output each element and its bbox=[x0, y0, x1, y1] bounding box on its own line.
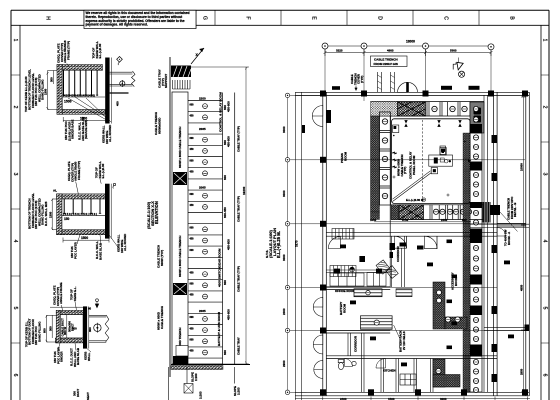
section2 bottom-right note cluster bbox=[117, 234, 128, 253]
elevation band cross box 1 bbox=[173, 172, 187, 185]
svg-text:E.L.(+)0.25 M.: E.L.(+)0.25 M. bbox=[276, 231, 281, 258]
svg-text:3170: 3170 bbox=[295, 240, 299, 247]
office desks row 1 bbox=[330, 273, 364, 286]
svg-text:BASE SLAB: BASE SLAB bbox=[76, 348, 80, 365]
svg-text:(TYP): (TYP) bbox=[403, 167, 407, 174]
battery rack note bbox=[399, 330, 406, 352]
svg-text:600Wx600D: 600Wx600D bbox=[157, 118, 161, 134]
svg-text:UNDER: UNDER bbox=[60, 351, 64, 362]
elevation right dim line 19200 bbox=[191, 67, 249, 364]
svg-text:5: 5 bbox=[542, 307, 548, 310]
svg-text:FRAME (TYP): FRAME (TYP) bbox=[77, 161, 81, 180]
svg-text:600W x 600D CABLE TRENCH: 600W x 600D CABLE TRENCH bbox=[178, 236, 182, 277]
section1 top note cluster left bbox=[57, 40, 71, 63]
elevation row circles bbox=[203, 104, 208, 355]
ring bottom dim row bbox=[370, 218, 471, 222]
svg-text:SUPPORT: SUPPORT bbox=[164, 74, 168, 88]
svg-text:3: 3 bbox=[12, 173, 18, 176]
bottom rooms top wall bbox=[326, 356, 497, 359]
control room trench note arrows bbox=[392, 152, 397, 168]
svg-text:1500: 1500 bbox=[81, 236, 88, 240]
section1 top note cluster right bbox=[92, 41, 103, 59]
svg-text:(GRADE M25): (GRADE M25) bbox=[84, 120, 88, 139]
office desks row 2 bbox=[367, 273, 386, 287]
svg-text:SECT: SECT bbox=[86, 392, 90, 400]
section3 top leader 1 bbox=[61, 305, 63, 310]
plan section flag Y bbox=[453, 58, 465, 78]
svg-text:ELEVATION: ELEVATION bbox=[154, 201, 159, 224]
plan veranda edge bbox=[295, 92, 301, 400]
svg-text:CABLE TRAY: CABLE TRAY bbox=[237, 337, 241, 355]
elevation title rotated bbox=[146, 201, 159, 229]
ring bottom band bbox=[371, 205, 485, 220]
svg-text:2V 110 CELLS: 2V 110 CELLS bbox=[402, 331, 406, 350]
section3 bottom note cluster 3 bbox=[84, 352, 91, 361]
svg-text:400: 400 bbox=[116, 101, 120, 106]
left grid line bubbles bbox=[285, 93, 525, 394]
wall columns top bbox=[320, 91, 528, 97]
svg-text:1:200: 1:200 bbox=[194, 373, 198, 381]
svg-text:ROOM - A: ROOM - A bbox=[507, 232, 511, 245]
section1 left dim line bbox=[47, 71, 58, 110]
svg-text:|450|450|450|450|450|: |450|450|450|450|450| bbox=[63, 93, 95, 97]
svg-text:CABLE TRENCH: CABLE TRENCH bbox=[160, 306, 164, 329]
elevation band cross box 2 bbox=[173, 283, 187, 295]
svg-text:1:200: 1:200 bbox=[236, 387, 240, 395]
section2 top note cluster 1 bbox=[67, 161, 81, 182]
svg-text:450: 450 bbox=[190, 294, 195, 297]
trench block leader bbox=[500, 212, 518, 232]
svg-text:|450|450|450|450|: |450|450|450|450| bbox=[63, 212, 97, 216]
svg-text:F: F bbox=[245, 16, 251, 19]
svg-text:19200: 19200 bbox=[242, 186, 246, 195]
battery rack upper bbox=[354, 289, 382, 297]
right cable trench note bbox=[507, 196, 518, 220]
svg-text:DETAIL - B: DETAIL - B bbox=[513, 203, 517, 217]
svg-text:payment of damages. All rights: payment of damages. All rights reserved. bbox=[86, 23, 148, 27]
section3 bottom note cluster 1 bbox=[53, 346, 64, 364]
svg-text:CABLE TRAY (TYP): CABLE TRAY (TYP) bbox=[237, 196, 241, 222]
svg-text:KITCHEN: KITCHEN bbox=[383, 369, 395, 373]
bottom cut dimension stubs bbox=[295, 397, 530, 400]
battery room label bbox=[339, 302, 346, 315]
elevation below-grade stub bbox=[168, 367, 234, 400]
plan trench from top bbox=[378, 72, 395, 92]
svg-text:2000: 2000 bbox=[282, 308, 286, 315]
control room diagonal bbox=[393, 171, 432, 202]
svg-text:600: 600 bbox=[223, 280, 227, 285]
svg-text:4950: 4950 bbox=[520, 284, 524, 291]
section3 inner box bbox=[60, 315, 83, 339]
section3 isolated text a bbox=[73, 389, 80, 397]
plan right far wall bbox=[526, 92, 530, 396]
elevation left note cluster 2 bbox=[154, 112, 161, 135]
svg-text:450-600: 450-600 bbox=[226, 239, 230, 250]
office front wall bbox=[326, 270, 390, 273]
svg-text:3750: 3750 bbox=[402, 218, 409, 222]
svg-text:1: 1 bbox=[542, 39, 548, 42]
office chair bbox=[350, 267, 355, 272]
wall columns bottom bbox=[368, 389, 528, 395]
mid toilets L counter bbox=[433, 282, 467, 329]
plan title rotated bbox=[265, 228, 281, 258]
section1 trench floor bbox=[62, 96, 105, 98]
control room cube bbox=[440, 148, 446, 156]
svg-text:2: 2 bbox=[542, 106, 548, 109]
section2 left dim lines bbox=[51, 199, 56, 231]
svg-text:600W (TYP): 600W (TYP) bbox=[160, 250, 164, 266]
svg-text:450-600: 450-600 bbox=[226, 309, 230, 320]
ring right stipple strip bbox=[463, 133, 470, 392]
section3 bottom leaders bbox=[58, 343, 91, 352]
battery room wall bbox=[326, 287, 390, 290]
svg-text:2065: 2065 bbox=[199, 127, 206, 131]
toilet door arc bbox=[345, 359, 353, 367]
right lower note bbox=[504, 229, 511, 246]
svg-text:5: 5 bbox=[12, 307, 18, 310]
svg-text:WALL: WALL bbox=[87, 352, 91, 361]
veranda door arc top bbox=[312, 106, 323, 127]
svg-text:450-600: 450-600 bbox=[226, 136, 230, 147]
right row numbers bbox=[542, 39, 548, 377]
control room EL text bbox=[406, 198, 426, 202]
control room door arrows bbox=[404, 120, 461, 127]
press room label bbox=[340, 151, 347, 163]
svg-text:300 W: 300 W bbox=[63, 327, 67, 335]
office corner label box bbox=[359, 256, 365, 262]
svg-text:600: 600 bbox=[190, 283, 195, 286]
svg-text:600: 600 bbox=[190, 339, 195, 342]
section2 bottom note cluster 2 bbox=[95, 241, 102, 260]
svg-text:450: 450 bbox=[190, 204, 195, 207]
section1 bottom note cluster 1 bbox=[64, 120, 75, 141]
svg-text:ALL ROUND: ALL ROUND bbox=[123, 234, 127, 251]
svg-text:450: 450 bbox=[190, 350, 195, 353]
ring top stipple corner bbox=[371, 102, 398, 117]
svg-text:2400: 2400 bbox=[441, 218, 448, 222]
svg-text:10000: 10000 bbox=[520, 163, 524, 171]
section3 far-left note cluster bbox=[24, 318, 41, 347]
left dim rotated texts bbox=[282, 126, 298, 367]
section2 bottom note cluster 1 bbox=[70, 241, 77, 259]
svg-text:450: 450 bbox=[190, 148, 195, 151]
plan grid extension lines bbox=[325, 49, 491, 101]
corridor small black labels bbox=[400, 243, 407, 247]
svg-text:SAND FILLING: SAND FILLING bbox=[41, 79, 45, 100]
svg-text:BASE SLAB: BASE SLAB bbox=[98, 243, 102, 260]
control room box symbol bbox=[440, 146, 446, 155]
svg-text:2065: 2065 bbox=[199, 186, 206, 190]
kitchen sink counter bbox=[400, 374, 416, 385]
svg-text:600: 600 bbox=[190, 103, 195, 106]
left row numbers bbox=[12, 39, 18, 377]
right border ticks bbox=[541, 75, 549, 343]
section3 right wall black bar bbox=[83, 306, 89, 348]
svg-text:2900: 2900 bbox=[282, 360, 286, 367]
section2 bottom concrete band bbox=[57, 230, 109, 235]
section1 bottom dim 1500 bbox=[63, 117, 105, 122]
elevation tall trench band bbox=[172, 92, 188, 364]
control room corner box bbox=[393, 125, 399, 136]
elevation mid dim rotated labels bbox=[223, 101, 230, 355]
svg-text:E.L.(+)0.30: E.L.(+)0.30 bbox=[101, 163, 105, 178]
ring left cells bbox=[380, 112, 391, 205]
toilet bowl bbox=[338, 360, 344, 370]
control room trench notes bbox=[397, 154, 408, 176]
section1 slab rebar circle bbox=[120, 80, 125, 87]
section3 right slab bbox=[89, 315, 106, 342]
control room diagonal end box bbox=[431, 168, 437, 174]
svg-text:2950: 2950 bbox=[520, 368, 524, 375]
ring top cells bbox=[427, 102, 470, 116]
svg-text:3: 3 bbox=[542, 173, 548, 176]
elevation slope note 2 bbox=[233, 386, 240, 396]
svg-text:CORRIDOR: CORRIDOR bbox=[354, 335, 358, 352]
plan top sub dim texts bbox=[336, 49, 457, 53]
window comb B (office wall) bbox=[330, 266, 356, 277]
plan cable trench label box bbox=[371, 56, 408, 67]
ring left cell circles bbox=[382, 119, 387, 199]
plan top grid bubble A bbox=[322, 43, 328, 49]
svg-text:600: 600 bbox=[223, 350, 227, 355]
svg-text:ANGLE FRAME: ANGLE FRAME bbox=[59, 282, 63, 304]
kitchen door arc bbox=[376, 359, 386, 369]
section1 top concrete band bbox=[57, 65, 103, 71]
svg-text:ROOM: ROOM bbox=[342, 303, 346, 313]
section3 left dim lines bbox=[46, 315, 57, 342]
svg-text:450: 450 bbox=[190, 238, 195, 241]
svg-text:DUCT: DUCT bbox=[76, 389, 80, 397]
plan top overall dim 13000 bbox=[325, 40, 491, 47]
wall column far right mid bbox=[525, 325, 530, 331]
office couch hatched 2 bbox=[386, 266, 398, 279]
svg-text:5300: 5300 bbox=[450, 49, 457, 53]
svg-text:ROOM: ROOM bbox=[343, 151, 347, 161]
battery room bottom wall bbox=[326, 330, 390, 333]
vertical corridor walls bbox=[348, 333, 364, 392]
corridor equipment blobs bbox=[390, 243, 396, 258]
svg-text:600-450: 600-450 bbox=[223, 207, 227, 218]
svg-text:13000: 13000 bbox=[406, 40, 415, 44]
elevation head comb bbox=[173, 80, 191, 89]
ring left stipple strip bbox=[371, 116, 380, 212]
elevation ladder rows bbox=[188, 101, 223, 365]
svg-text:1300: 1300 bbox=[48, 211, 52, 218]
section3 bottom note cluster 2 bbox=[70, 348, 81, 367]
section3 top concrete band bbox=[56, 310, 84, 314]
section1 bottom note cluster 2 bbox=[78, 117, 89, 141]
plan top door butterfly bbox=[398, 82, 418, 92]
svg-text:400V SWITCHGEAR ROOM: 400V SWITCHGEAR ROOM bbox=[218, 248, 222, 287]
section3 inner rotated text right cell bbox=[68, 321, 75, 332]
svg-text:SAND FILLING: SAND FILLING bbox=[37, 321, 41, 342]
section1 far-left note cluster bbox=[24, 69, 45, 112]
svg-text:600: 600 bbox=[462, 218, 467, 222]
office couch hatched 1 bbox=[376, 260, 391, 275]
svg-text:D: D bbox=[377, 16, 383, 20]
plan top sub dim line bbox=[324, 50, 493, 57]
section1 slab break zigzag bbox=[132, 71, 136, 87]
svg-text:CABLE TRAY (TYP): CABLE TRAY (TYP) bbox=[237, 266, 241, 292]
svg-text:C: C bbox=[443, 16, 449, 20]
trench crossing comb block bbox=[483, 202, 501, 223]
section2 right wall black bar bbox=[105, 184, 111, 239]
svg-text:600: 600 bbox=[190, 159, 195, 162]
battery rack leader bbox=[394, 325, 401, 341]
svg-text:1050: 1050 bbox=[370, 218, 377, 222]
svg-text:600W x 600D CABLE TRENCH: 600W x 600D CABLE TRENCH bbox=[178, 127, 182, 168]
corridor door arc 2 bbox=[425, 236, 438, 249]
ring top X-box bbox=[398, 102, 426, 116]
section1 bottom note cluster 3 bbox=[102, 125, 113, 144]
section2 far-left note cluster bbox=[28, 193, 49, 229]
corridor bottom wall bbox=[326, 233, 497, 237]
office front wall blobs bbox=[334, 269, 382, 274]
right grid wall pair bbox=[470, 224, 529, 227]
svg-text:150: 150 bbox=[64, 217, 70, 221]
svg-text:UNDER BASE: UNDER BASE bbox=[71, 120, 75, 139]
svg-text:2200: 2200 bbox=[199, 97, 206, 101]
svg-text:CONTROL & RELAY ROOM: CONTROL & RELAY ROOM bbox=[219, 92, 223, 132]
svg-text:PANEL ROOM: PANEL ROOM bbox=[412, 155, 416, 175]
section2 top leader 1 bbox=[76, 182, 79, 194]
section2 top leader 2 bbox=[100, 179, 101, 184]
svg-text:FRAME (TYP): FRAME (TYP) bbox=[66, 41, 70, 60]
ring bottom cell circles bbox=[433, 209, 471, 214]
svg-text:6: 6 bbox=[12, 374, 18, 377]
section2 trench floor bbox=[62, 215, 105, 217]
section3 ground line bbox=[50, 306, 83, 308]
elevation main left wall line bbox=[169, 57, 171, 377]
section2 pigtail symbol bbox=[113, 183, 116, 188]
equipment ring top band borders bbox=[371, 102, 485, 117]
elevation bottom small box bbox=[184, 384, 193, 394]
svg-text:450: 450 bbox=[190, 171, 195, 174]
section2 top note cluster 2 bbox=[95, 161, 106, 179]
section1 left wall bbox=[57, 65, 62, 115]
section2 bottom leaders bbox=[77, 235, 119, 249]
bottom rooms dividers bbox=[381, 359, 433, 393]
bottom cut dim texts bbox=[340, 397, 447, 400]
svg-text:2: 2 bbox=[12, 106, 18, 109]
plan top grid bubble D bbox=[488, 44, 494, 50]
wall columns right line bbox=[492, 135, 498, 382]
svg-text:1500: 1500 bbox=[80, 117, 87, 121]
wall columns left bbox=[320, 157, 326, 395]
window comb A (corridor wall) bbox=[332, 229, 354, 240]
elevation slope note 1 bbox=[191, 372, 198, 382]
svg-text:R.C.C. WALL M25: R.C.C. WALL M25 bbox=[44, 201, 48, 226]
svg-text:300: 300 bbox=[72, 327, 77, 331]
plan top wall label boxes bbox=[332, 86, 480, 90]
svg-text:3000: 3000 bbox=[282, 254, 286, 261]
section1 bottom concrete band bbox=[57, 110, 105, 115]
svg-text:FROM 220kV GIS: FROM 220kV GIS bbox=[374, 62, 398, 66]
section1 right wall black bar bbox=[105, 58, 111, 124]
svg-text:AL: AL bbox=[53, 189, 57, 193]
control room plus markers bbox=[393, 140, 467, 197]
ring right cell column bbox=[470, 133, 482, 392]
veranda blob bbox=[302, 125, 305, 133]
svg-text:G: G bbox=[202, 16, 208, 20]
top row dividers bbox=[84, 10, 479, 28]
svg-text:CABLE TRAY (TYP): CABLE TRAY (TYP) bbox=[237, 126, 241, 152]
lower toilets L counter bbox=[433, 359, 460, 387]
svg-text:600: 600 bbox=[43, 328, 47, 333]
elevation row left dim blobs bbox=[190, 103, 195, 352]
svg-text:3000: 3000 bbox=[282, 126, 286, 133]
veranda door arc mid1 bbox=[313, 298, 323, 317]
elevation bottom edge band bbox=[171, 365, 250, 370]
ring right dark gap blocks bbox=[470, 124, 482, 357]
corridor mat stripes bbox=[396, 289, 412, 297]
section3 top note cluster 2 bbox=[70, 286, 77, 301]
section1 datum diamond symbol bbox=[117, 57, 123, 66]
plan left wall bbox=[323, 92, 327, 396]
svg-text:BATTERY & UPS ROOM: BATTERY & UPS ROOM bbox=[217, 312, 221, 346]
elevation top hatched head block bbox=[171, 66, 191, 78]
section3 bottom concrete band bbox=[55, 338, 85, 343]
section3 top note cluster 1 bbox=[53, 282, 64, 306]
section3 spot level symbol bbox=[95, 299, 99, 309]
svg-text:3220: 3220 bbox=[336, 49, 343, 53]
plan ring right wall bbox=[484, 95, 488, 392]
plan left note cluster (top) bbox=[350, 73, 364, 85]
svg-text:600: 600 bbox=[190, 316, 195, 319]
svg-text:1500: 1500 bbox=[64, 100, 72, 104]
svg-text:300: 300 bbox=[48, 326, 52, 331]
svg-text:6: 6 bbox=[542, 374, 548, 377]
svg-text:1:200: 1:200 bbox=[199, 391, 203, 399]
elevation row circle dashes bbox=[203, 106, 206, 352]
svg-text:H: H bbox=[45, 16, 51, 20]
svg-text:600: 600 bbox=[190, 137, 195, 140]
section3 slab rebar circle bbox=[94, 323, 101, 333]
control room rotated label bbox=[409, 151, 417, 179]
elevation ladder right rail bbox=[223, 93, 235, 365]
plan top grid bubble C bbox=[423, 43, 429, 49]
elevation section X arrow bbox=[191, 48, 204, 64]
svg-text:4600: 4600 bbox=[387, 49, 394, 53]
left border ticks bbox=[11, 75, 20, 343]
veranda door arc low bbox=[314, 361, 323, 379]
section1 leader lines to bottom-right bbox=[68, 97, 111, 122]
plan top grid bubble B bbox=[361, 43, 367, 49]
corridor door arc 1 bbox=[395, 236, 407, 248]
svg-text:KERB E.L.: KERB E.L. bbox=[73, 286, 77, 301]
vertical corridor walls below ring bbox=[390, 236, 404, 287]
svg-text:90: 90 bbox=[88, 307, 92, 311]
control room equip box bbox=[429, 155, 453, 166]
elevation left note cluster 3 bbox=[157, 245, 164, 268]
section1 top leader bbox=[67, 64, 70, 68]
control room walls bbox=[390, 116, 470, 236]
control room right wall marker bbox=[468, 159, 471, 162]
battery rack bbox=[361, 316, 393, 330]
control room dashed line bbox=[422, 120, 424, 202]
section1 right slab bbox=[110, 72, 133, 94]
svg-text:1: 1 bbox=[12, 39, 18, 42]
toilet basin bbox=[352, 361, 356, 365]
elevation tray note column bbox=[237, 126, 241, 355]
office door arc bbox=[328, 237, 340, 249]
elevation band bottom white box bbox=[173, 346, 188, 366]
svg-text:PCC LAYER: PCC LAYER bbox=[73, 241, 77, 259]
ring top cell circles bbox=[432, 106, 467, 111]
svg-text:300: 300 bbox=[50, 77, 54, 82]
section3 top leader 2 bbox=[75, 301, 77, 310]
accessory room label bbox=[451, 272, 458, 290]
